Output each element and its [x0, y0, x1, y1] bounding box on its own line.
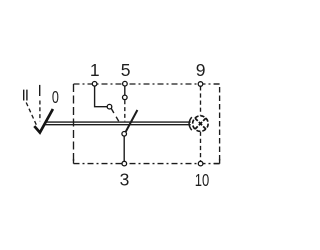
actuator lever with arrow tip (position 0, solid)	[34, 109, 53, 133]
actuator bar (double line)	[46, 121, 191, 123]
contact circle below terminal 5	[123, 95, 128, 100]
lamp L1 cross diagonal 2	[195, 118, 206, 129]
wire from terminal 1 down and right to contact	[95, 86, 108, 107]
wire terminal 5 to inner contact circle	[124, 86, 126, 95]
lamp socket arc	[189, 117, 192, 130]
wire from moving contact circle down to terminal 3	[123, 136, 125, 161]
position I tick mark	[39, 85, 41, 96]
contact tail from contact circle toward bar (dashed ray)	[111, 108, 119, 121]
svg-text:9: 9	[196, 60, 206, 80]
svg-text:1: 1	[90, 60, 100, 80]
position II tick marks	[24, 90, 27, 101]
enclosure dashed box top edge	[74, 83, 220, 85]
svg-text:5: 5	[121, 60, 131, 80]
terminal 9 circle	[198, 82, 203, 87]
enclosure dashed box right edge	[219, 84, 221, 164]
lamp L1 cross diagonal 1	[195, 118, 206, 129]
dashed drive line from contact under 5 down to actuator bar	[124, 100, 126, 121]
lamp L1 dashed circle	[193, 116, 209, 132]
svg-text:10: 10	[195, 170, 210, 190]
svg-text:3: 3	[120, 170, 130, 190]
position I dashed lever line	[39, 101, 41, 122]
position II dashed lever line	[26, 103, 36, 126]
terminal 10 circle	[198, 161, 203, 166]
enclosure dashed box bottom edge	[74, 163, 220, 165]
dashed line lamp to terminal 10	[200, 132, 202, 162]
terminal 1 circle	[92, 82, 97, 87]
box corner stubs	[74, 84, 220, 164]
terminal 5 circle	[123, 81, 128, 86]
svg-text:0: 0	[52, 87, 59, 107]
terminal 3 circle	[122, 161, 127, 166]
dashed line terminal 9 to lamp	[200, 86, 202, 115]
moving contact arm (slanted)	[126, 110, 138, 132]
fixed contact circle on branch 1	[107, 104, 112, 109]
enclosure dashed box left edge	[73, 84, 75, 164]
moving contact pivot circle	[122, 132, 127, 137]
